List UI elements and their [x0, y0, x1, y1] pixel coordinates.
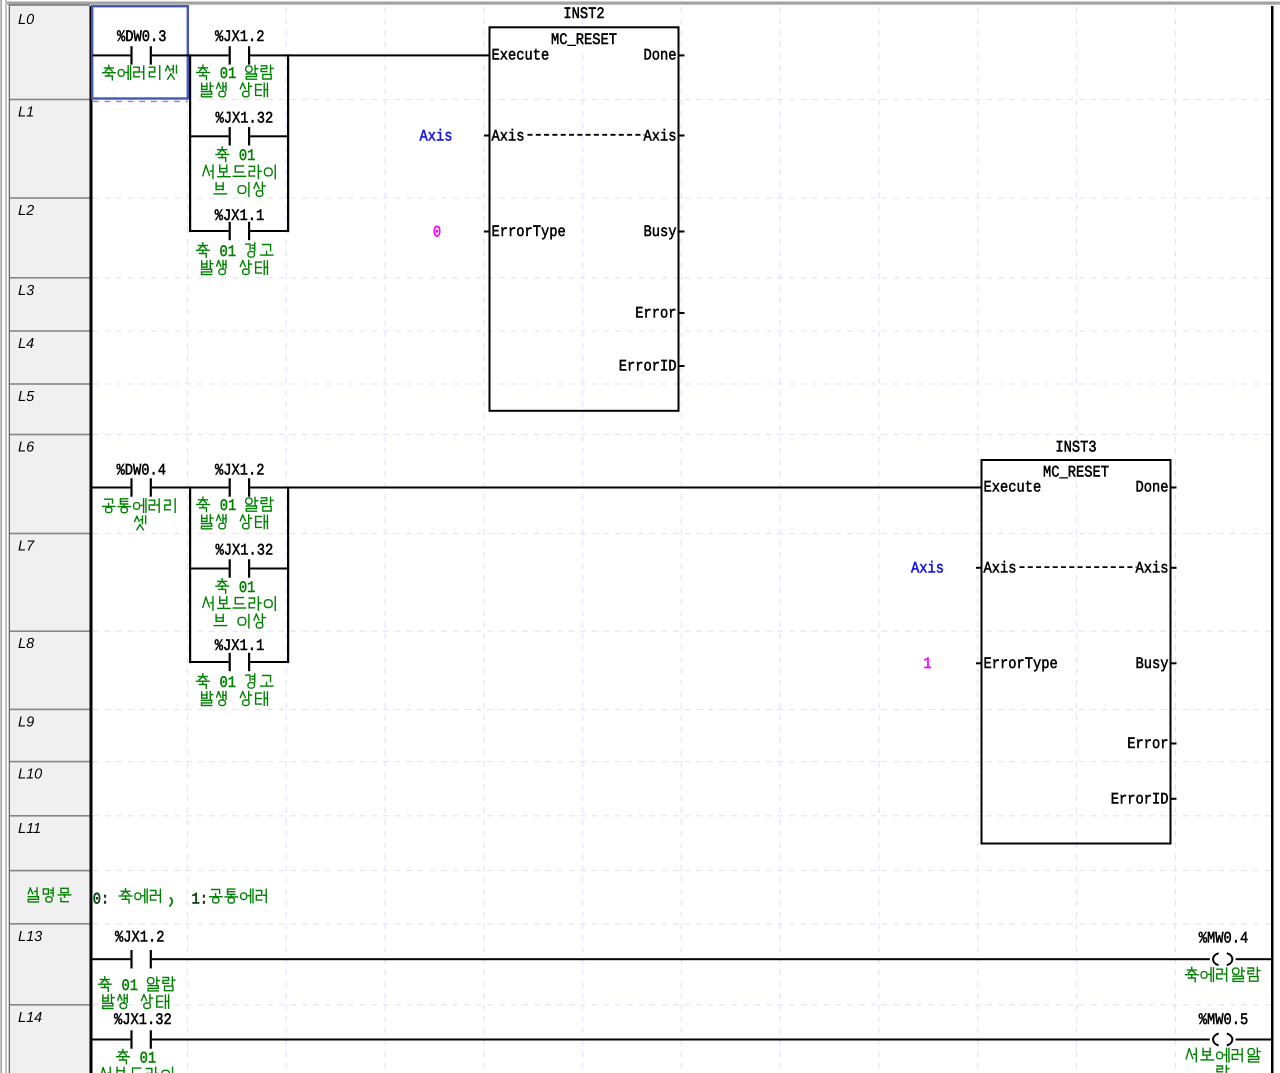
svg-text:%DW0.4: %DW0.4 [117, 461, 167, 479]
svg-text:L13: L13 [18, 929, 42, 945]
svg-text:L4: L4 [18, 336, 34, 352]
svg-text:%JX1.32: %JX1.32 [216, 542, 274, 560]
contact %JX1.2 (축 01 알람 발생 상태) [197, 28, 273, 97]
svg-text:01: 01 [122, 977, 139, 995]
svg-text:01: 01 [220, 674, 237, 692]
svg-text:01: 01 [220, 497, 237, 515]
svg-text:MC_RESET: MC_RESET [551, 31, 617, 49]
svg-text:%JX1.32: %JX1.32 [114, 1011, 172, 1029]
contact %JX1.2 L13 (축 01 알람 발생 상태) [99, 929, 175, 1009]
contact %JX1.32 (축 01 서보드라이브 이상) [203, 110, 275, 197]
rung L6 wire segments [93, 487, 982, 489]
svg-text:Done: Done [644, 47, 677, 65]
svg-text:01: 01 [140, 1049, 157, 1067]
svg-text:%MW0.5: %MW0.5 [1199, 1011, 1249, 1029]
svg-text:Axis: Axis [984, 560, 1017, 578]
OR branch rails L6-L8 [189, 486, 289, 663]
svg-text:INST3: INST3 [1055, 439, 1096, 457]
contact %DW0.3 (축에러리셋) [103, 28, 177, 80]
svg-text:ErrorID: ErrorID [1111, 790, 1169, 808]
svg-text:INST2: INST2 [563, 5, 604, 23]
svg-text:01: 01 [239, 579, 256, 597]
svg-text:%JX1.1: %JX1.1 [215, 207, 265, 225]
node ErrorType constant 1 (INST3) [923, 655, 931, 673]
rung L0 wire segments [93, 54, 490, 56]
svg-text:L2: L2 [18, 203, 34, 219]
node ErrorType constant 0 (INST2) [433, 223, 441, 241]
svg-text:%JX1.2: %JX1.2 [215, 28, 265, 46]
coil %MW0.4 (축에러알람) [1186, 930, 1260, 982]
contact %JX1.1 L8 (축 01 경고 발생 상태) [197, 637, 273, 706]
comment text row [93, 889, 266, 909]
contact %JX1.32 L7 (축 01 서보드라이브 이상) [203, 542, 275, 629]
svg-text:L7: L7 [18, 539, 35, 555]
function block U2 INST3 MC_RESET [976, 439, 1177, 844]
svg-text:1:: 1: [192, 890, 209, 908]
svg-text:0: 0 [433, 223, 441, 241]
svg-text:%JX1.2: %JX1.2 [115, 929, 165, 947]
svg-text:0:: 0: [93, 890, 110, 908]
node Axis input label (INST2) [420, 127, 453, 145]
svg-text:Busy: Busy [644, 223, 677, 241]
coil %MW0.5 (서보에러알람) [1186, 1011, 1260, 1073]
right power rail [1271, 6, 1274, 1073]
svg-text:Axis: Axis [420, 127, 453, 145]
OR branch rails L0-L2 [189, 54, 289, 232]
svg-text:01: 01 [220, 243, 237, 261]
rung L7 branch wire [190, 568, 288, 570]
function block U1 INST2 MC_RESET [484, 5, 685, 411]
rung L2 branch wire [190, 230, 288, 232]
svg-text:L0: L0 [18, 12, 34, 28]
svg-text:L10: L10 [18, 767, 42, 783]
rung L8 branch wire [190, 661, 288, 663]
svg-text:MC_RESET: MC_RESET [1043, 464, 1109, 482]
svg-text:Execute: Execute [984, 479, 1042, 497]
svg-text:L1: L1 [18, 105, 34, 121]
svg-text:L6: L6 [18, 440, 35, 456]
svg-text:L9: L9 [18, 714, 34, 730]
rung L14 wire segments [93, 1039, 1272, 1041]
svg-text:L11: L11 [18, 821, 41, 837]
rung number column background [9, 5, 90, 1073]
svg-text:ErrorType: ErrorType [984, 655, 1058, 673]
svg-text:ErrorID: ErrorID [619, 358, 677, 376]
node Axis input label (INST3) [911, 560, 944, 578]
svg-text:L3: L3 [18, 283, 34, 299]
top gray bar [7, 2, 1280, 5]
selection cursor box [92, 6, 188, 101]
svg-text:Done: Done [1136, 479, 1169, 497]
svg-text:ErrorType: ErrorType [492, 223, 566, 241]
svg-text:L14: L14 [18, 1010, 42, 1026]
contact %JX1.1 (축 01 경고 발생 상태) [197, 207, 273, 275]
svg-text:L8: L8 [18, 636, 34, 652]
svg-text:%MW0.4: %MW0.4 [1199, 930, 1249, 948]
svg-text:01: 01 [239, 147, 256, 165]
svg-text:Axis: Axis [644, 127, 677, 145]
rung L1 branch wire [190, 135, 288, 137]
svg-text:Error: Error [1127, 735, 1168, 753]
left window border lines [0, 0, 6, 1073]
left power rail [90, 6, 93, 1073]
svg-text:%JX1.32: %JX1.32 [216, 110, 274, 128]
svg-text:Execute: Execute [492, 47, 550, 65]
comment row label 설명문 [28, 888, 70, 902]
svg-text:Axis: Axis [492, 127, 525, 145]
rung row separator lines [10, 99, 90, 1006]
svg-text:1: 1 [923, 655, 931, 673]
svg-text:01: 01 [220, 65, 237, 83]
svg-text:Busy: Busy [1136, 655, 1169, 673]
svg-text:Error: Error [635, 305, 676, 323]
svg-text:Axis: Axis [911, 560, 944, 578]
svg-text:%JX1.1: %JX1.1 [215, 637, 265, 655]
contact %JX1.2 L6 (축 01 알람 발생 상태) [197, 461, 273, 529]
rung L13 wire segments [93, 958, 1272, 960]
contact %DW0.4 (공통에러리셋) [103, 461, 176, 530]
rung number labels [18, 12, 42, 1026]
contact %JX1.32 L14 (축 01 서보드라이브) [100, 1011, 172, 1073]
svg-text:Axis: Axis [1136, 560, 1169, 578]
svg-text:%JX1.2: %JX1.2 [215, 461, 265, 479]
svg-text:L5: L5 [18, 389, 35, 405]
svg-text:%DW0.3: %DW0.3 [117, 28, 167, 46]
